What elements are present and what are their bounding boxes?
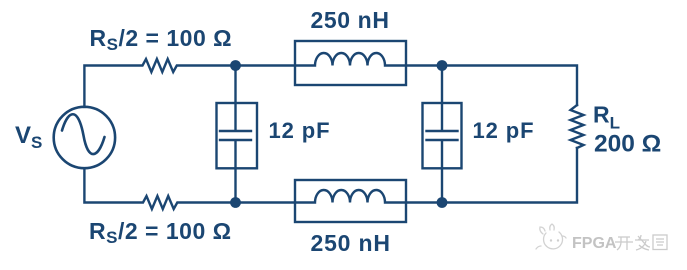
svg-text:250 nH: 250 nH: [311, 230, 391, 256]
svg-text:200 Ω: 200 Ω: [594, 131, 661, 158]
svg-text:12 pF: 12 pF: [473, 118, 535, 143]
svg-text:250 nH: 250 nH: [311, 7, 390, 33]
svg-text:12 pF: 12 pF: [269, 118, 331, 143]
svg-text:FPGA: FPGA: [572, 235, 617, 252]
